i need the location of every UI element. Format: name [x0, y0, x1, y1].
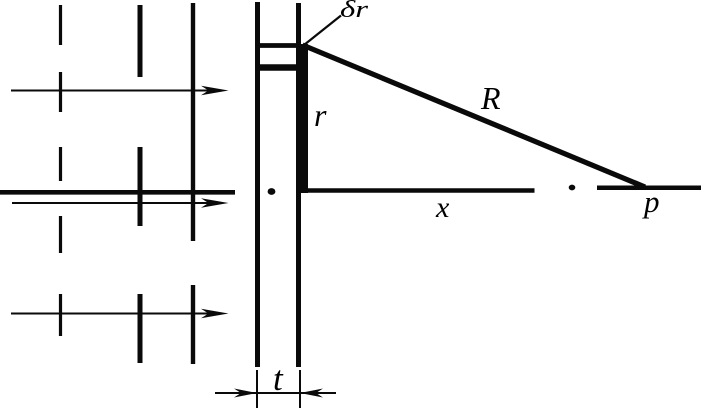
optical axis left thick segment [0, 190, 235, 195]
dimension extension line left [256, 370, 258, 408]
slab right face line [296, 3, 301, 367]
label delta-r [340, 0, 369, 23]
slab left face line [255, 2, 260, 367]
leader line to delta-r label [304, 16, 341, 46]
svg-text:r: r [314, 97, 327, 133]
label p [642, 184, 660, 219]
svg-text:R: R [480, 80, 501, 116]
axis dot inside slab [268, 188, 276, 195]
dimension extension line right [299, 370, 301, 408]
optical axis right segment B [597, 186, 701, 191]
label x [435, 191, 450, 224]
wavefront W3 solid line [191, 3, 195, 364]
wavefront W2 dashed line [138, 5, 143, 363]
svg-text:δr: δr [340, 0, 369, 23]
label r [314, 97, 327, 133]
wavefront W1 dashed line [59, 5, 62, 336]
svg-text:p: p [642, 184, 660, 219]
optical axis right segment A [298, 188, 535, 193]
svg-text:x: x [435, 191, 450, 224]
ray arrow A2 middle [12, 198, 229, 207]
zone ring bottom edge [256, 64, 298, 70]
label t [273, 359, 284, 398]
svg-text:t: t [273, 359, 284, 398]
axis centerline dot right [569, 185, 576, 191]
ray arrow A3 bottom [11, 309, 229, 318]
zone ring top edge [256, 43, 301, 48]
dimension line t with arrows [215, 389, 336, 398]
zone radius r thick bar [296, 44, 308, 193]
ray arrow A1 top [11, 86, 229, 95]
label R [480, 80, 501, 116]
hypotenuse line R [303, 45, 646, 187]
